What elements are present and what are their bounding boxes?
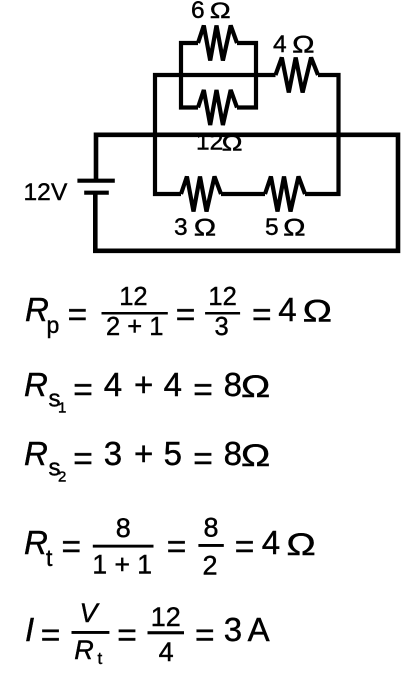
node A vertical wire with parallel-feed wire and series-branch lead (junction x=155)	[155, 75, 276, 194]
svg-text:8: 8	[116, 513, 131, 543]
svg-text:R: R	[24, 366, 48, 403]
svg-text:p: p	[47, 312, 60, 338]
svg-text:=: =	[195, 617, 215, 654]
svg-text:=: =	[73, 372, 93, 409]
svg-text:3: 3	[104, 435, 122, 472]
resistor 3-ohm	[181, 177, 221, 212]
svg-text:2 + 1: 2 + 1	[106, 313, 163, 341]
white patch hiding 12-ohm label tops above wire	[195, 128, 243, 132]
resistor 5-ohm	[265, 177, 305, 212]
svg-text:=: =	[62, 528, 82, 565]
svg-text:4: 4	[278, 291, 296, 328]
wire outer loop (battery top lead, top wire, right side, bottom wire, bottom lead)	[95, 135, 398, 251]
vertical B wire (4-ohm lead, down to series branch lead)	[305, 75, 339, 194]
equation 5: I = V/Rt = 12/4 = 3 A	[25, 598, 270, 668]
svg-text:4: 4	[159, 637, 174, 667]
wire parallel box right vertical with branch leads	[237, 43, 256, 108]
svg-text:t: t	[46, 545, 53, 571]
svg-text:12: 12	[151, 602, 181, 632]
svg-text:1: 1	[58, 400, 66, 417]
equation 2: Rs1 = 4 + 4 = 8 ohm	[24, 366, 270, 417]
svg-text:12: 12	[208, 283, 236, 311]
svg-text:3: 3	[224, 611, 242, 648]
svg-text:=: =	[193, 372, 213, 409]
wire series branch middle segment	[221, 192, 265, 196]
svg-text:=: =	[117, 617, 137, 654]
svg-text:=: =	[68, 297, 88, 334]
svg-text:8: 8	[203, 513, 218, 543]
resistor 4-ohm	[276, 58, 319, 93]
svg-text:Ω: Ω	[286, 527, 315, 562]
svg-text:Ω: Ω	[210, 0, 231, 23]
equation 3: Rs2 = 3 + 5 = 8 ohm	[24, 435, 270, 486]
wire parallel box left vertical with branch leads	[181, 43, 198, 108]
svg-text:+: +	[134, 366, 153, 403]
svg-text:=: =	[235, 528, 255, 565]
svg-text:3: 3	[174, 214, 188, 241]
svg-text:12: 12	[119, 283, 147, 311]
svg-text:5: 5	[265, 214, 279, 241]
svg-text:=: =	[252, 297, 272, 334]
svg-text:A: A	[248, 611, 270, 648]
svg-text:V: V	[79, 598, 100, 628]
svg-text:=: =	[41, 617, 61, 654]
svg-text:R: R	[24, 435, 48, 472]
svg-text:4: 4	[164, 366, 182, 403]
svg-text:=: =	[167, 528, 187, 565]
svg-text:4: 4	[262, 524, 280, 561]
resistor 6-ohm	[198, 26, 237, 61]
svg-text:8: 8	[224, 366, 242, 403]
battery 12V plates	[77, 181, 114, 193]
svg-text:4: 4	[104, 366, 122, 403]
svg-text:t: t	[98, 649, 103, 668]
svg-text:Ω: Ω	[303, 293, 332, 328]
svg-text:Ω: Ω	[241, 369, 270, 404]
svg-text:Ω: Ω	[241, 438, 270, 473]
svg-text:2: 2	[202, 550, 217, 580]
svg-text:=: =	[193, 441, 213, 478]
svg-text:R: R	[24, 524, 48, 561]
svg-text:12: 12	[24, 179, 51, 206]
svg-text:Ω: Ω	[283, 213, 305, 240]
resistor 12-ohm	[198, 90, 237, 125]
svg-text:+: +	[134, 435, 153, 472]
svg-text:3: 3	[215, 313, 229, 341]
svg-text:4: 4	[273, 31, 287, 58]
svg-text:I: I	[25, 611, 34, 648]
svg-text:1 + 1: 1 + 1	[92, 550, 152, 580]
svg-text:=: =	[73, 441, 93, 478]
svg-text:8: 8	[224, 435, 242, 472]
svg-text:R: R	[25, 291, 49, 328]
svg-text:Ω: Ω	[292, 30, 314, 57]
svg-text:6: 6	[191, 0, 205, 24]
svg-text:Ω: Ω	[222, 131, 243, 156]
svg-text:R: R	[74, 635, 94, 665]
svg-text:Ω: Ω	[194, 213, 216, 240]
svg-text:5: 5	[164, 435, 182, 472]
svg-text:V: V	[51, 179, 68, 206]
svg-text:=: =	[176, 297, 196, 334]
svg-text:12: 12	[196, 129, 223, 156]
svg-text:2: 2	[58, 469, 66, 486]
equation 4: Rt = 8/(1+1) = 8/2 = 4 ohm	[24, 513, 316, 581]
equation 1: Rp = 12/(2+1) = 12/3 = 4 ohm	[25, 283, 332, 341]
